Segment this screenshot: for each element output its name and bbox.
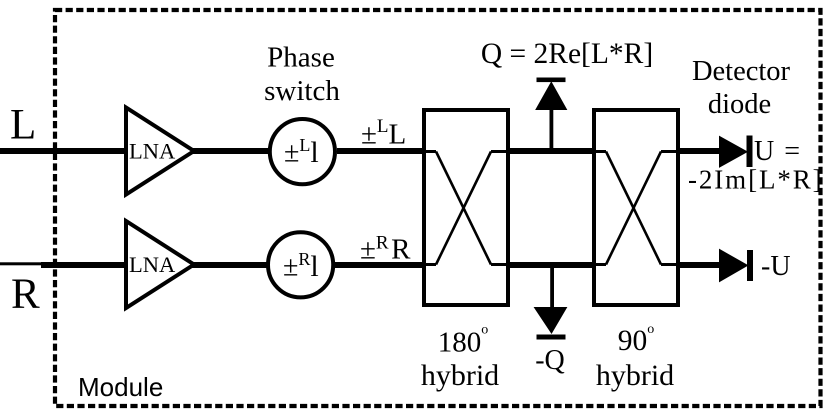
180 hybrid crossover diagonal up [436,152,491,265]
svg-text:diode: diode [708,89,771,120]
90 hybrid inner stub bottom-right [661,263,680,266]
svg-text:Phase: Phase [267,42,335,74]
wire 180 hybrid to 90 hybrid (bottom) [508,262,594,268]
svg-text:-2Im[L*R]: -2Im[L*R] [688,165,824,195]
svg-text:Detector: Detector [692,56,791,87]
wire phase switch to 180 hybrid (L) [337,148,422,154]
detector diode D3 (U output, pointing right) [720,136,753,168]
net label -U [761,251,791,282]
amplifier LNA (L channel) [126,108,194,195]
phase switch PS2 (R channel) [268,232,333,297]
wire L input to LNA [0,148,128,154]
node L input label [10,102,36,149]
wire 90 hybrid to U diode [678,148,720,154]
90 hybrid inner stub bottom-left [592,263,606,266]
detector diode D4 (-U output, pointing right) [720,250,754,282]
svg-text:hybrid: hybrid [421,359,499,392]
net label plus-minus-L L [361,116,406,151]
detector diode D2 (-Q output, pointing down) [535,308,567,340]
wire LNA to phase switch (L) [192,148,268,154]
detector diode D1 (Q output, pointing up) [536,78,567,110]
svg-text:switch: switch [264,75,340,107]
180 degree hybrid coupler box [424,110,508,305]
label Detector diode [692,56,791,120]
net label plus-minus-R R [360,233,411,266]
label Phase switch [264,42,340,108]
180 hybrid inner stub bottom-left [422,263,436,266]
svg-text:-Q: -Q [535,345,565,376]
svg-text:Module: Module [78,372,163,402]
90 hybrid crossover diagonal up [606,152,661,265]
svg-text:hybrid: hybrid [596,359,674,392]
90 hybrid crossover diagonal down [606,152,661,265]
90 degree hybrid coupler box [594,110,678,305]
label 180 hybrid [421,323,499,393]
180 hybrid inner stub top-right [491,150,510,153]
wire 90 hybrid to -U diode [678,262,720,268]
180 hybrid inner stub bottom-right [491,263,510,266]
wire R input to LNA [41,262,128,268]
phase switch PS1 (L channel) [270,119,335,184]
svg-text:LNA: LNA [129,139,176,164]
wire LNA to phase switch (R) [192,262,267,268]
node R input label [11,271,40,318]
label Module [78,372,163,402]
wire stub down to -Q detector diode [550,264,554,308]
svg-text:R: R [11,271,40,318]
svg-text:U =: U = [754,136,802,167]
wire R input thin segment [0,262,41,265]
wire stub up to Q detector diode [550,108,554,150]
90 hybrid inner stub top-right [661,150,680,153]
net label U = -2Im[L*R] [688,136,824,195]
wire 180 hybrid to 90 hybrid (top) [508,148,594,154]
180 hybrid crossover diagonal down [436,152,491,265]
svg-text:L: L [10,102,36,149]
svg-text:LNA: LNA [129,252,176,277]
90 hybrid inner stub top-left [592,150,606,153]
wire phase switch to 180 hybrid (R) [335,262,422,268]
amplifier LNA (R channel) [126,221,194,308]
svg-text:Q = 2Re[L*R]: Q = 2Re[L*R] [481,38,653,70]
svg-text:-U: -U [761,251,791,282]
net label -Q [535,345,565,376]
net label Q = 2Re[L*R] [481,38,653,70]
label 90 hybrid [596,322,674,392]
svg-text:180o: 180o [438,323,489,359]
180 hybrid inner stub top-left [422,150,436,153]
